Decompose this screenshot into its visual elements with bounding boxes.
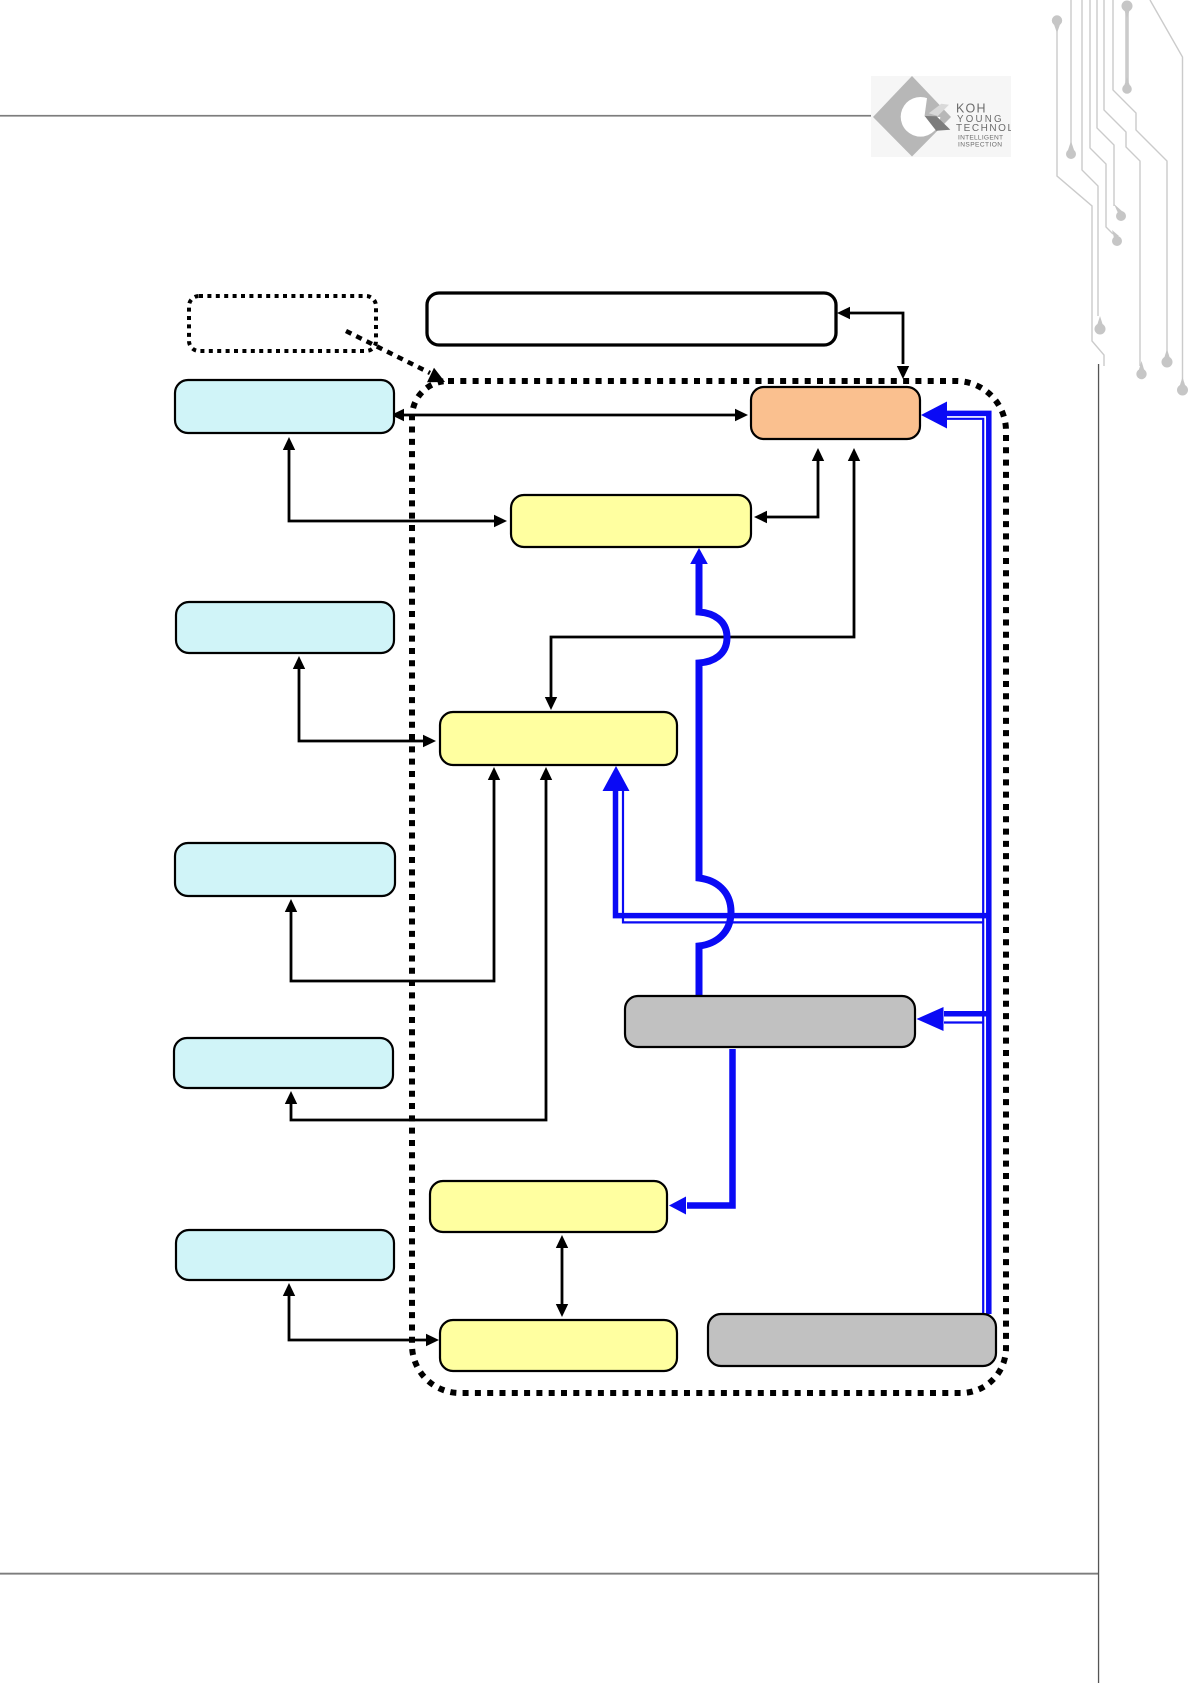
yellow box 1: [511, 495, 751, 547]
connector yellow 1 / orange: [767, 460, 818, 517]
blue connector gray 1 / yellow 4: [687, 1049, 733, 1206]
yellow box 4: [430, 1181, 667, 1232]
cyan box A: [175, 380, 394, 433]
white box: [427, 293, 836, 345]
connector cyan C / yellow 2: [291, 780, 494, 981]
cyan box D: [174, 1038, 393, 1088]
header rule: [0, 115, 871, 117]
cyan box B: [176, 602, 394, 653]
connector cyan B / yellow 2: [299, 668, 423, 741]
connector cyan E / yellow 5: [289, 1295, 426, 1340]
connector white box / container: [849, 313, 903, 364]
blue connector gray2 / orange: [946, 413, 989, 1314]
svg-text:INTELLIGENT: INTELLIGENT: [958, 134, 1003, 141]
connector cyan A / yellow 1: [289, 448, 494, 521]
cyan box C: [175, 843, 395, 896]
svg-text:TECHNOL: TECHNOL: [956, 123, 1013, 134]
blue connector gray2 / yellow 2: [616, 789, 989, 922]
logo diamond: [873, 76, 951, 157]
connector cyan A / orange: [404, 414, 736, 417]
connector yellow 2 top / orange: [551, 460, 854, 697]
connector yellow 4 / yellow 5: [561, 1247, 564, 1305]
right page border line: [1098, 364, 1099, 1683]
logo light chevron: [929, 104, 949, 116]
connector cyan D / yellow 2: [291, 780, 546, 1120]
footer rule: [0, 1573, 1099, 1575]
blue connector gray 1 / yellow 1 with hops: [699, 562, 731, 996]
circuit pads: [1052, 1, 1188, 396]
svg-text:INSPECTION: INSPECTION: [958, 142, 1002, 149]
yellow box 2: [440, 712, 677, 765]
logo circle: [901, 97, 941, 137]
logo dark chevron: [925, 116, 951, 131]
logo wedge: [925, 95, 950, 118]
orange box: [751, 387, 920, 439]
logo background: [871, 76, 1011, 157]
cyan box E: [176, 1230, 394, 1280]
dashed arrow from note box to container: [346, 331, 430, 373]
gray box 1: [625, 996, 915, 1047]
dotted container: [412, 381, 1006, 1393]
blue connector backbone / gray 1: [944, 1014, 989, 1023]
dotted note box: [189, 296, 376, 351]
yellow box 5: [440, 1320, 677, 1371]
circuit trace decoration: [1057, 0, 1183, 381]
gray box 2: [708, 1314, 996, 1366]
